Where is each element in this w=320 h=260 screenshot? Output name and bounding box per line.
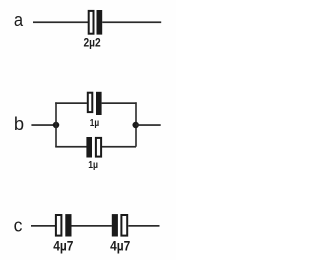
wire (right vertical branch) — [135, 102, 137, 146]
svg-text:1µ: 1µ — [90, 118, 99, 129]
wire (bottom branch, right of capacitor) — [102, 146, 136, 148]
wire (right lead out of junction) — [136, 124, 161, 126]
capacitor 4µ7 (right, solid plate left) — [112, 214, 127, 236]
wire — [31, 225, 55, 227]
wire — [102, 21, 161, 23]
wire (left vertical branch) — [55, 102, 57, 146]
svg-text:1µ: 1µ — [88, 160, 98, 171]
wire — [128, 225, 159, 227]
capacitor 1µ (top, open plate left) — [88, 92, 102, 115]
svg-text:4µ7: 4µ7 — [110, 239, 130, 254]
wire (top branch, left of capacitor) — [55, 102, 87, 104]
capacitor 4µ7 (left, open plate left) — [56, 214, 72, 236]
capacitor 1µ (bottom, solid plate left) — [86, 137, 101, 158]
junction dot (right) — [132, 122, 139, 129]
svg-text:4µ7: 4µ7 — [53, 239, 73, 254]
wire (between series capacitors) — [72, 225, 112, 227]
svg-text:c: c — [14, 215, 23, 236]
wire (top branch, right of capacitor) — [102, 102, 137, 104]
junction dot (left) — [53, 122, 60, 129]
svg-text:a: a — [14, 9, 24, 30]
capacitor 2µ2 (polarized, open plate left) — [89, 10, 103, 35]
svg-text:2µ2: 2µ2 — [84, 35, 101, 49]
wire — [33, 21, 89, 23]
wire (left lead into junction) — [31, 124, 56, 126]
svg-text:b: b — [14, 113, 24, 134]
wire (bottom branch, left of capacitor) — [55, 146, 86, 148]
